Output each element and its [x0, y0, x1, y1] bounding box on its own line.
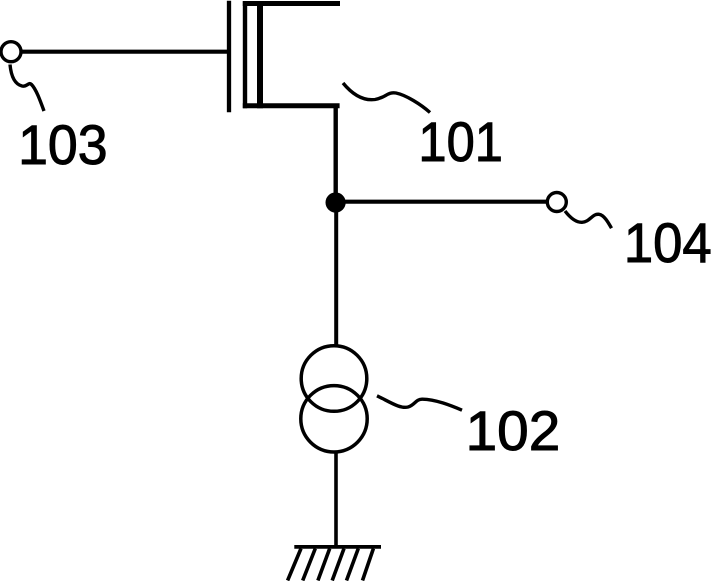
terminal 104 (output, open circle) [547, 193, 566, 212]
svg-text:104: 104 [624, 211, 712, 274]
label 102 [466, 400, 561, 463]
leader squiggle for label 103 [10, 65, 44, 112]
wire source lead down to node [334, 104, 338, 203]
leader squiggle for label 104 [565, 211, 612, 228]
svg-text:102: 102 [466, 400, 561, 463]
wire current source to ground [334, 452, 338, 548]
label 103 [18, 113, 108, 176]
terminal 103 (input, open circle) [1, 42, 21, 62]
svg-text:103: 103 [18, 113, 108, 176]
node junction dot [326, 192, 346, 212]
label 101 [418, 112, 503, 174]
current source 102 (two overlapping circles) [301, 346, 367, 452]
label 104 [624, 211, 712, 274]
transistor 101 (MOSFET) [229, 1, 340, 113]
svg-text:101: 101 [418, 112, 503, 174]
wire node to current source [334, 203, 338, 347]
wire gate (input to transistor gate) [21, 50, 227, 54]
wire output [336, 200, 547, 204]
leader squiggle for label 101 [343, 83, 430, 113]
ground [288, 547, 381, 581]
leader squiggle for label 102 [377, 396, 462, 410]
